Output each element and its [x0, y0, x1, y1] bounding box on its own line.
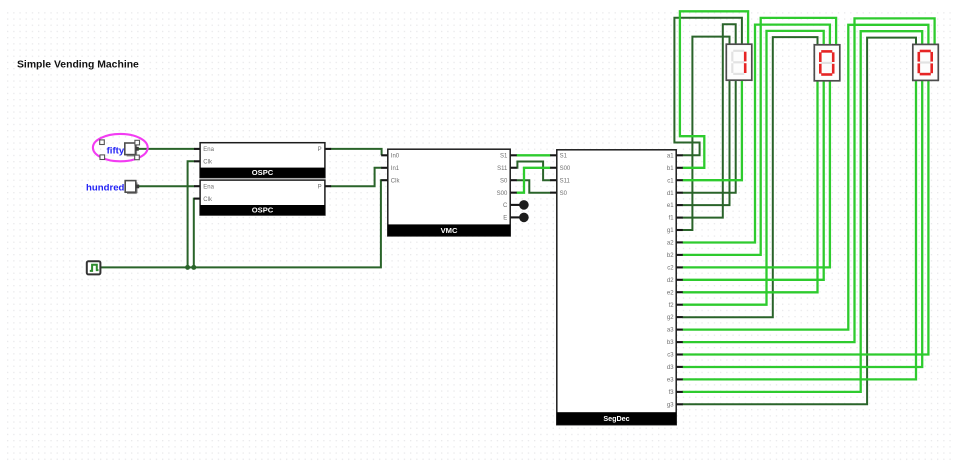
svg-text:g1: g1 [667, 228, 674, 234]
svg-text:fifty: fifty [107, 146, 125, 157]
wire g3 SegDec to DS3 [682, 38, 916, 405]
svg-text:In1: In1 [391, 166, 400, 172]
seven segment display DS1 showing 1 [726, 44, 752, 80]
selection handles [100, 140, 140, 160]
wire e2 SegDec to DS2 (high) [682, 79, 817, 292]
svg-text:E: E [503, 216, 507, 222]
svg-text:a2: a2 [667, 241, 674, 247]
junction clock/OSPC2-Clk branch [191, 265, 196, 270]
input pin "fifty" [107, 143, 139, 157]
wire f1 SegDec to DS1 [682, 24, 735, 217]
svg-text:b2: b2 [667, 253, 674, 259]
svg-text:e2: e2 [667, 290, 674, 296]
wire d1 SegDec to DS1 [682, 79, 735, 193]
wire g1 SegDec to DS1 [682, 37, 729, 230]
junction clock/OSPC1-Clk branch [185, 265, 190, 270]
wire c1 SegDec to DS1 (high) [682, 79, 742, 180]
svg-text:d1: d1 [667, 191, 674, 197]
wire c3 SegDec to DS3 (high) [682, 79, 928, 355]
wire a1 SegDec to DS1 [674, 18, 742, 156]
svg-text:OSPC: OSPC [252, 168, 274, 177]
svg-text:e3: e3 [667, 378, 674, 384]
svg-text:OSPC: OSPC [252, 206, 274, 215]
svg-text:Ena: Ena [203, 184, 214, 190]
svg-text:C: C [503, 203, 508, 209]
unconnected output dot VMC C [519, 200, 529, 210]
svg-text:a1: a1 [667, 153, 674, 159]
svg-text:f1: f1 [669, 216, 675, 222]
wire VMC S1 to SegDec S1 (high) [517, 154, 551, 156]
wire fifty to OSPC1 Ena [137, 148, 195, 150]
svg-text:S00: S00 [497, 191, 508, 197]
svg-text:b3: b3 [667, 340, 674, 346]
svg-text:e1: e1 [667, 203, 674, 209]
svg-text:f2: f2 [669, 303, 675, 309]
wire b2 SegDec to DS2 (high) [682, 18, 836, 255]
svg-text:S0: S0 [500, 178, 508, 184]
seven segment display DS2 showing 0 [814, 45, 840, 81]
svg-text:S00: S00 [560, 166, 571, 172]
block VMC U3 (vending machine controller) [388, 149, 510, 236]
wire f3 SegDec to DS3 (high) [682, 31, 922, 392]
wire d2 SegDec to DS2 (high) [682, 79, 823, 279]
svg-text:Simple Vending Machine: Simple Vending Machine [17, 60, 139, 71]
svg-text:b1: b1 [667, 166, 674, 172]
block OSPC U2 (one-shot pulse counter) [200, 180, 325, 215]
svg-text:S1: S1 [500, 153, 508, 159]
wire e1 SegDec to DS1 [682, 79, 729, 205]
wire b3 SegDec to DS3 (high) [682, 18, 934, 342]
svg-text:S11: S11 [560, 178, 571, 184]
unconnected output dot VMC E [519, 213, 529, 223]
svg-text:In0: In0 [391, 153, 400, 159]
svg-text:Clk: Clk [203, 160, 213, 166]
svg-text:c1: c1 [667, 178, 674, 184]
wire clock branch to OSPC1 Clk [188, 161, 195, 267]
wire VMC S00 to SegDec S00 (high) [517, 168, 551, 193]
clock source CLK [87, 261, 101, 274]
svg-text:VMC: VMC [441, 226, 458, 235]
wire f2 SegDec to DS2 (high) [682, 31, 823, 305]
svg-text:S0: S0 [560, 191, 568, 197]
svg-text:d3: d3 [667, 365, 674, 371]
wire e3 SegDec to DS3 (high) [682, 79, 916, 379]
wire g2 SegDec to DS2 [682, 37, 817, 317]
pin stubs SegDec inputs [550, 155, 557, 192]
pin stubs OSPC2 [194, 186, 331, 198]
pin stubs OSPC1 [194, 149, 331, 161]
input pin "hundred" [86, 181, 139, 194]
svg-text:Ena: Ena [203, 147, 214, 153]
block OSPC U1 (one-shot pulse counter) [200, 143, 325, 178]
wire a2 SegDec to DS2 (high) [682, 25, 830, 243]
wire b1 SegDec to DS1 (high) [680, 11, 748, 168]
svg-text:Clk: Clk [203, 197, 213, 203]
svg-text:g3: g3 [667, 402, 674, 408]
svg-text:P: P [318, 147, 322, 153]
svg-text:c2: c2 [667, 266, 674, 272]
svg-text:hundred: hundred [86, 182, 125, 193]
selection ellipse around fifty pin [93, 134, 148, 161]
wire VMC S0 to SegDec S0 [517, 180, 551, 193]
svg-text:g2: g2 [667, 315, 674, 321]
svg-text:d2: d2 [667, 278, 674, 284]
seven segment display DS3 showing 0 [913, 44, 939, 80]
wire c2 SegDec to DS2 (high) [682, 79, 830, 267]
svg-text:f3: f3 [669, 390, 675, 396]
svg-text:Clk: Clk [391, 178, 401, 184]
svg-text:P: P [318, 184, 322, 190]
svg-text:a3: a3 [667, 328, 674, 334]
wire clock branch to OSPC2 Clk [193, 199, 196, 268]
wire OSPC2 P to VMC In1 [331, 168, 382, 186]
block SegDec U4 (seven segment decoder) [557, 150, 676, 425]
wire a3 SegDec to DS3 (high) [682, 25, 928, 330]
wire clock net main run [99, 180, 381, 267]
svg-text:S11: S11 [497, 166, 508, 172]
wire OSPC1 P to VMC In0 [331, 149, 382, 155]
pin stubs VMC [381, 155, 519, 217]
pin stubs SegDec outputs [676, 155, 683, 404]
wire hundred to OSPC2 Ena [137, 185, 195, 187]
svg-text:SegDec: SegDec [603, 414, 629, 423]
svg-text:S1: S1 [560, 153, 568, 159]
svg-text:c3: c3 [667, 353, 674, 359]
wire VMC S11 to SegDec S11 [517, 162, 551, 181]
wire d3 SegDec to DS3 (high) [682, 79, 922, 367]
